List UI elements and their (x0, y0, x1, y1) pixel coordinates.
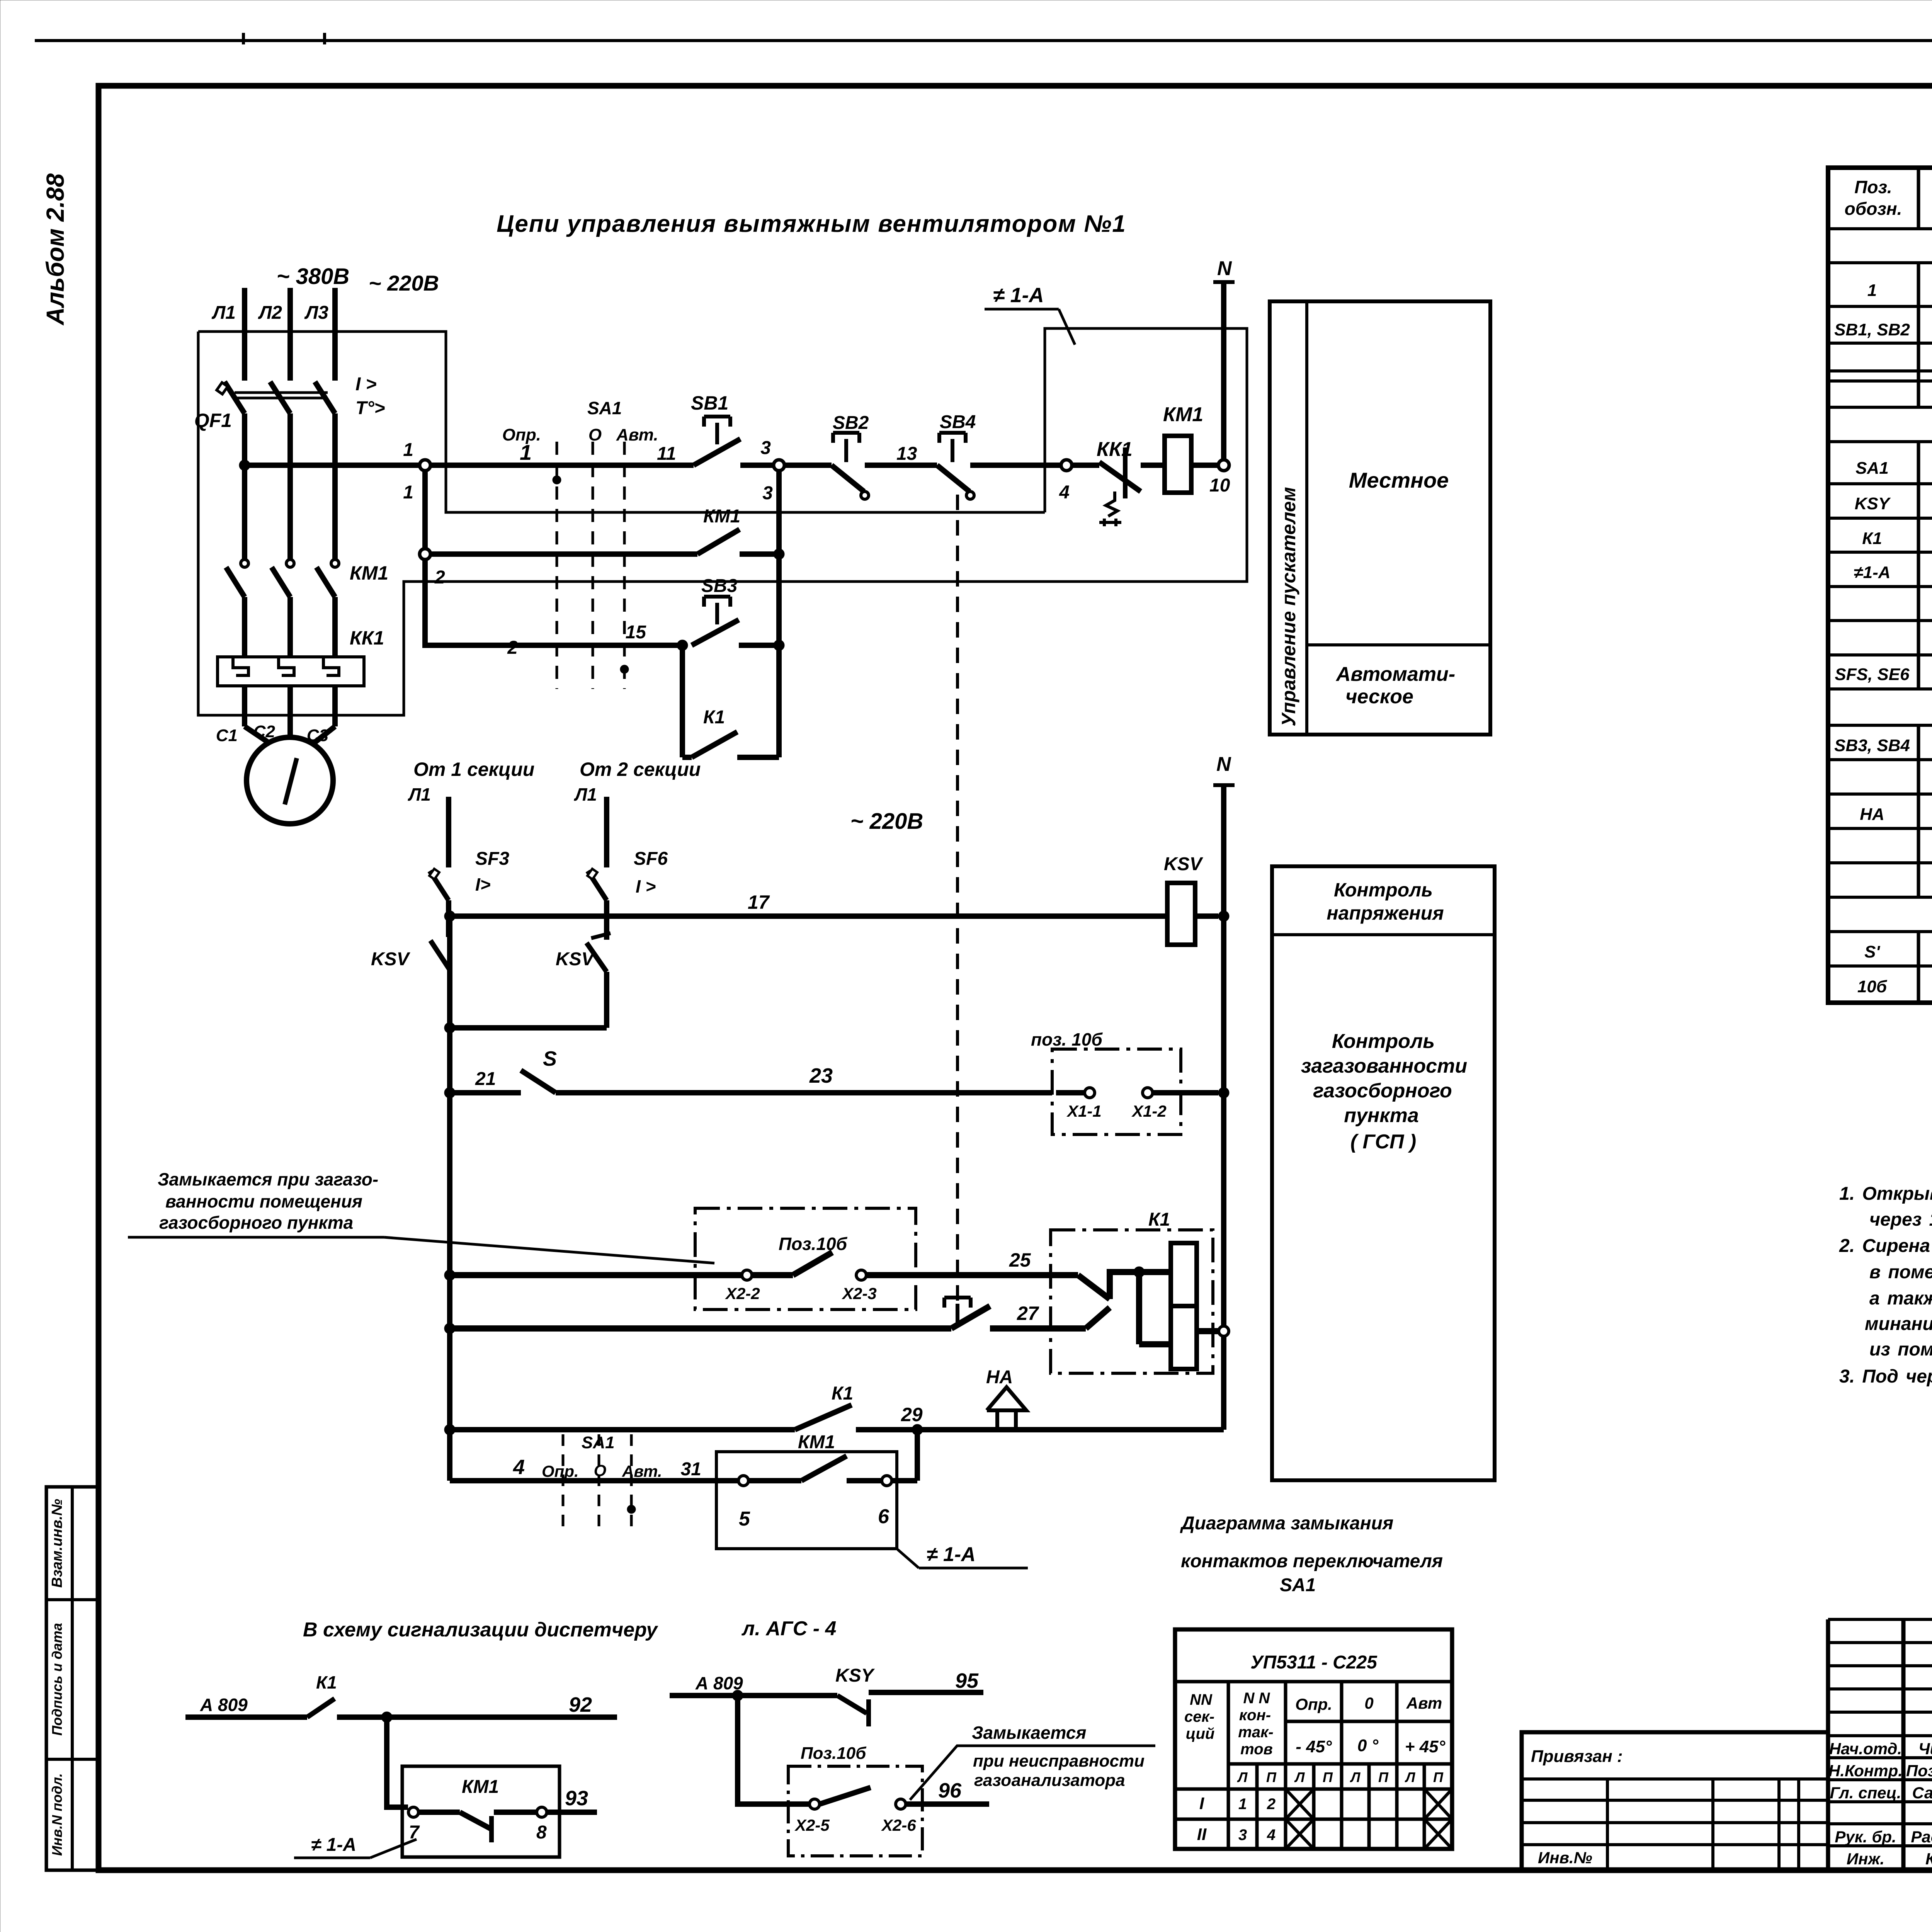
svg-text:А 809: А 809 (695, 1673, 743, 1693)
svg-text:Нач.отд.: Нач.отд. (1829, 1740, 1902, 1758)
svg-text:Местное: Местное (1349, 468, 1449, 492)
svg-text:6: 6 (878, 1505, 889, 1528)
svg-text:X1-1: X1-1 (1066, 1102, 1102, 1120)
svg-text:К1: К1 (316, 1672, 337, 1692)
svg-text:С1: С1 (216, 726, 238, 745)
svg-text:загазованности: загазованности (1301, 1055, 1467, 1077)
svg-text:1: 1 (403, 440, 413, 460)
svg-text:SF6: SF6 (634, 849, 668, 869)
svg-text:29: 29 (901, 1404, 923, 1425)
svg-text:поз. 10б: поз. 10б (1031, 1029, 1103, 1049)
svg-text:92: 92 (569, 1693, 592, 1716)
svg-text:Цепи управления вытяжным в: Цепи управления вытяжным вентилятором №1 (497, 211, 1126, 237)
svg-text:II: II (1197, 1825, 1207, 1844)
svg-text:X2-6: X2-6 (881, 1816, 916, 1834)
svg-text:Поз.: Поз. (1854, 177, 1892, 197)
svg-text:≠1-А: ≠1-А (1854, 563, 1890, 582)
svg-text:контактов переключателя: контактов переключателя (1181, 1551, 1443, 1571)
svg-text:кон-: кон- (1239, 1707, 1271, 1724)
svg-text:Инв.№: Инв.№ (1538, 1849, 1592, 1867)
svg-text:≠ 1-А: ≠ 1-А (927, 1543, 976, 1566)
svg-text:От 2 секции: От 2 секции (580, 759, 701, 780)
svg-text:X2-5: X2-5 (794, 1816, 830, 1834)
svg-text:SA1: SA1 (1855, 459, 1889, 478)
svg-text:0: 0 (1364, 1694, 1373, 1712)
svg-text:сек-: сек- (1184, 1708, 1214, 1725)
svg-text:SB1: SB1 (691, 392, 728, 414)
svg-text:Н.Контр.: Н.Контр. (1828, 1762, 1903, 1780)
svg-text:Автомати-: Автомати- (1335, 663, 1455, 685)
svg-text:SF3: SF3 (475, 849, 509, 869)
svg-text:I: I (1199, 1794, 1204, 1813)
svg-text:Контроль: Контроль (1332, 1030, 1435, 1053)
svg-text:Опр.: Опр. (502, 425, 541, 444)
svg-text:96: 96 (938, 1779, 962, 1802)
svg-text:Альбом 2.88: Альбом 2.88 (41, 173, 69, 326)
svg-text:Взам.инв.№: Взам.инв.№ (49, 1499, 65, 1588)
svg-text:SB3: SB3 (701, 576, 738, 596)
svg-text:17: 17 (748, 891, 770, 913)
svg-text:~ 380В: ~ 380В (277, 264, 350, 289)
svg-text:Радюшкин: Радюшкин (1911, 1828, 1932, 1846)
svg-text:23: 23 (809, 1064, 833, 1087)
svg-text:10: 10 (1209, 475, 1230, 496)
svg-text:0 °: 0 ° (1357, 1736, 1379, 1755)
svg-text:25: 25 (1009, 1249, 1031, 1271)
svg-text:S': S' (1864, 942, 1880, 961)
svg-text:С2: С2 (253, 722, 276, 741)
svg-text:N: N (1217, 257, 1232, 280)
svg-text:Замыкается: Замыкается (972, 1723, 1086, 1743)
svg-text:SFS, SE6: SFS, SE6 (1835, 665, 1910, 684)
svg-text:SB3, SB4: SB3, SB4 (1834, 736, 1910, 755)
svg-text:Козлов: Козлов (1925, 1850, 1932, 1868)
svg-text:NN: NN (1190, 1691, 1213, 1708)
svg-text:Л: Л (1350, 1769, 1361, 1785)
svg-text:I>: I> (475, 874, 491, 895)
svg-text:КМ1: КМ1 (798, 1432, 835, 1452)
svg-text:31: 31 (681, 1459, 701, 1480)
svg-text:О: О (588, 425, 602, 444)
svg-text:П: П (1266, 1769, 1277, 1785)
svg-text:S: S (543, 1047, 557, 1070)
svg-text:1: 1 (1238, 1796, 1247, 1813)
svg-text:КК1: КК1 (1097, 438, 1133, 461)
svg-text:SA1: SA1 (1280, 1575, 1316, 1595)
svg-text:QF1: QF1 (194, 410, 232, 431)
svg-text:тов: тов (1240, 1741, 1273, 1758)
svg-text:А 809: А 809 (200, 1695, 248, 1715)
svg-text:4: 4 (513, 1456, 525, 1479)
svg-text:С3: С3 (307, 726, 328, 745)
svg-text:≠ 1-А: ≠ 1-А (311, 1835, 356, 1855)
svg-text:Опр.: Опр. (542, 1462, 579, 1480)
svg-text:НА: НА (1860, 805, 1884, 824)
svg-text:2. Сирена у входа включа: 2. Сирена у входа включается автоматичес… (1839, 1236, 1932, 1256)
svg-text:≠ 1-А: ≠ 1-А (993, 284, 1044, 307)
svg-text:К1: К1 (1148, 1209, 1170, 1230)
svg-text:21: 21 (475, 1069, 496, 1089)
svg-text:~ 220В: ~ 220В (850, 809, 923, 834)
svg-text:газоанализатора: газоанализатора (974, 1771, 1125, 1790)
svg-text:П: П (1378, 1769, 1389, 1785)
svg-text:Привязан :: Привязан : (1531, 1747, 1623, 1766)
svg-text:3: 3 (760, 438, 771, 458)
svg-text:напряжения: напряжения (1327, 902, 1444, 924)
svg-text:3: 3 (1238, 1827, 1247, 1844)
svg-text:I >: I > (355, 374, 377, 395)
svg-text:Авт: Авт (1406, 1694, 1442, 1712)
svg-text:13: 13 (896, 444, 917, 464)
svg-text:Сафонова: Сафонова (1912, 1784, 1932, 1802)
svg-text:Л2: Л2 (258, 303, 282, 323)
svg-text:Инв.N подл.: Инв.N подл. (49, 1773, 65, 1856)
svg-text:~ 220В: ~ 220В (369, 271, 439, 295)
svg-text:КМ1: КМ1 (462, 1777, 499, 1797)
svg-text:Контроль: Контроль (1334, 879, 1433, 901)
svg-text:N N: N N (1243, 1690, 1270, 1707)
svg-text:из помещения во избежан: из помещения во избежании замораживания … (1869, 1339, 1932, 1360)
svg-text:при неисправности: при неисправности (973, 1752, 1145, 1770)
svg-text:Гл. спец.: Гл. спец. (1830, 1784, 1901, 1802)
svg-text:Замыкается при загазо-: Замыкается при загазо- (158, 1169, 378, 1189)
svg-text:ций: ций (1186, 1725, 1215, 1742)
svg-text:ческое: ческое (1345, 685, 1413, 708)
svg-text:2: 2 (507, 638, 518, 658)
svg-text:К1: К1 (1862, 529, 1882, 548)
svg-text:SA1: SA1 (587, 398, 622, 418)
svg-text:KSY: KSY (835, 1665, 875, 1686)
svg-text:8: 8 (536, 1822, 547, 1843)
svg-text:Л: Л (1294, 1769, 1305, 1785)
svg-text:КМ1: КМ1 (1163, 403, 1203, 426)
svg-text:Л1: Л1 (408, 784, 431, 804)
svg-text:П: П (1323, 1769, 1333, 1785)
svg-text:KSV: KSV (1164, 854, 1204, 874)
svg-text:К1: К1 (832, 1383, 853, 1404)
svg-text:SB4: SB4 (940, 412, 976, 432)
svg-text:Поз.10б: Поз.10б (779, 1234, 848, 1254)
svg-text:обозн.: обозн. (1845, 199, 1902, 219)
svg-text:Диаграмма замыкания: Диаграмма замыкания (1180, 1513, 1393, 1534)
svg-text:N: N (1216, 753, 1231, 776)
svg-text:В схему сигнализации диспе: В схему сигнализации диспетчеру (303, 1619, 659, 1641)
svg-text:+ 45°: + 45° (1405, 1737, 1446, 1756)
svg-text:КМ1: КМ1 (350, 562, 388, 584)
svg-text:Л: Л (1237, 1769, 1248, 1785)
svg-text:минания о необходимости: минания о необходимости отключения венти… (1865, 1314, 1932, 1334)
svg-text:27: 27 (1017, 1303, 1039, 1324)
svg-text:SA1: SA1 (582, 1433, 615, 1452)
svg-text:пункта: пункта (1344, 1104, 1419, 1127)
svg-text:95: 95 (955, 1669, 979, 1692)
svg-text:5: 5 (739, 1508, 750, 1530)
svg-text:( ГСП ): ( ГСП ) (1350, 1131, 1416, 1153)
svg-text:через 10 минут после в: через 10 минут после включения вентилято… (1869, 1209, 1932, 1230)
svg-text:газосборного пункта: газосборного пункта (159, 1213, 353, 1233)
svg-text:3: 3 (762, 483, 773, 503)
svg-text:Поз.10б: Поз.10б (801, 1744, 867, 1763)
svg-text:Подпись и дата: Подпись и дата (49, 1623, 65, 1736)
svg-text:так-: так- (1238, 1724, 1273, 1741)
svg-text:I >: I > (636, 876, 656, 896)
svg-text:11: 11 (657, 444, 676, 464)
svg-text:4: 4 (1267, 1827, 1276, 1844)
svg-text:KSV: KSV (371, 949, 411, 969)
svg-text:газосборного: газосборного (1313, 1080, 1452, 1102)
svg-text:Чижиков: Чижиков (1918, 1740, 1932, 1758)
svg-text:в помещении объемной к: в помещении объемной концентрации газа 0… (1869, 1262, 1932, 1282)
svg-text:П: П (1433, 1769, 1444, 1785)
svg-text:О: О (594, 1461, 607, 1480)
svg-text:- 45°: - 45° (1296, 1737, 1332, 1756)
svg-text:Управление пускателем: Управление пускателем (1278, 487, 1299, 726)
svg-text:X1-2: X1-2 (1131, 1102, 1167, 1120)
svg-text:15: 15 (626, 622, 647, 643)
svg-text:Позднякова: Позднякова (1906, 1762, 1932, 1780)
svg-text:2: 2 (1267, 1796, 1276, 1813)
svg-text:Т°>: Т°> (355, 398, 385, 418)
svg-text:От 1 секции: От 1 секции (413, 759, 534, 780)
svg-text:Л1: Л1 (574, 784, 597, 804)
svg-text:93: 93 (565, 1787, 588, 1810)
svg-text:4: 4 (1059, 482, 1070, 503)
svg-text:10б: 10б (1857, 977, 1888, 996)
svg-text:2: 2 (434, 567, 445, 588)
svg-text:Л1: Л1 (211, 303, 236, 323)
svg-text:1: 1 (1867, 281, 1877, 300)
svg-text:КМ1: КМ1 (703, 506, 740, 527)
svg-text:К1: К1 (703, 707, 725, 728)
svg-text:Авт.: Авт. (616, 425, 658, 444)
svg-text:Рук. бр.: Рук. бр. (1835, 1828, 1896, 1846)
svg-text:Л: Л (1405, 1769, 1416, 1785)
svg-text:ванности помещения: ванности помещения (165, 1191, 362, 1211)
svg-text:3. Под чертой указаны: 3. Под чертой указаны номера клемм блока… (1839, 1366, 1932, 1387)
svg-text:л. АГС - 4: л. АГС - 4 (741, 1617, 836, 1640)
svg-text:Авт.: Авт. (622, 1462, 662, 1480)
svg-text:Опр.: Опр. (1295, 1695, 1332, 1713)
svg-text:НА: НА (986, 1367, 1013, 1388)
svg-text:X2-3: X2-3 (842, 1284, 877, 1303)
svg-text:SB1, SB2: SB1, SB2 (1834, 320, 1910, 339)
svg-text:1: 1 (403, 482, 413, 503)
svg-text:КК1: КК1 (350, 627, 384, 649)
svg-text:а также при входе пер: а также при входе персонала в помещение … (1869, 1288, 1932, 1309)
svg-text:УП5311 - С225: УП5311 - С225 (1250, 1652, 1378, 1673)
svg-text:X2-2: X2-2 (725, 1284, 760, 1303)
svg-text:1. Открывание дверей и вхо: 1. Открывание дверей и вход в помещение … (1839, 1184, 1932, 1204)
svg-text:SB2: SB2 (833, 413, 869, 433)
svg-text:Л3: Л3 (304, 303, 328, 323)
svg-text:Инж.: Инж. (1847, 1850, 1884, 1868)
svg-text:KSY: KSY (1855, 494, 1891, 513)
svg-text:KSV: KSV (556, 949, 595, 969)
